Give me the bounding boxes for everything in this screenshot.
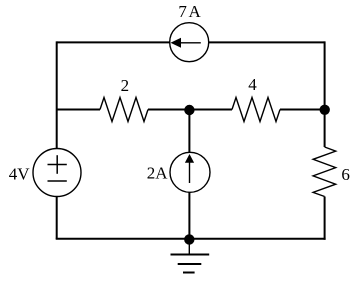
- voltage source 4V circle: [33, 149, 81, 197]
- resistor R=6 vertical zigzag: [313, 147, 336, 197]
- resistor R=2 zigzag: [100, 98, 148, 122]
- wire right side vertical lower (resistor 6 to bottom corner): [324, 197, 326, 240]
- wire middle horizontal right (resistor 4 to right rail): [280, 109, 325, 111]
- svg-text:2A: 2A: [147, 164, 169, 183]
- wire right side vertical upper (top corner to resistor 6): [324, 41, 326, 147]
- svg-text:2: 2: [121, 76, 130, 95]
- wire top from top-left corner to top-right corner: [57, 41, 325, 43]
- wire middle horizontal left (left rail to resistor 2): [57, 109, 100, 111]
- wire bottom from bottom-left corner to bottom-right corner: [56, 238, 326, 240]
- current source 7A arrow (pointing left): [180, 42, 201, 44]
- current source 2A arrow (pointing up): [189, 162, 191, 183]
- current source 2A circle: [170, 152, 210, 192]
- svg-text:4V: 4V: [9, 164, 31, 183]
- svg-text:6: 6: [341, 165, 350, 184]
- resistor R=4 zigzag: [232, 98, 280, 122]
- voltage source plus sign: [48, 164, 67, 166]
- current source 7A circle: [170, 23, 209, 62]
- wire middle horizontal center (resistor 2 to resistor 4): [148, 109, 232, 111]
- voltage source minus sign: [48, 180, 67, 182]
- ground bar 1: [171, 254, 210, 256]
- ground bar 2: [178, 263, 202, 265]
- node G junction dot (bottom rail): [184, 234, 194, 244]
- ground stub: [188, 239, 190, 254]
- wire left side vertical: [56, 41, 58, 238]
- svg-text:4: 4: [248, 75, 257, 94]
- ground bar 3: [183, 272, 195, 274]
- node B junction dot (right rail): [320, 105, 330, 115]
- node A junction dot (middle of center wire): [184, 105, 194, 115]
- wire middle vertical (node A through 2A source to ground rail): [188, 110, 190, 239]
- svg-text:7A: 7A: [178, 2, 202, 21]
